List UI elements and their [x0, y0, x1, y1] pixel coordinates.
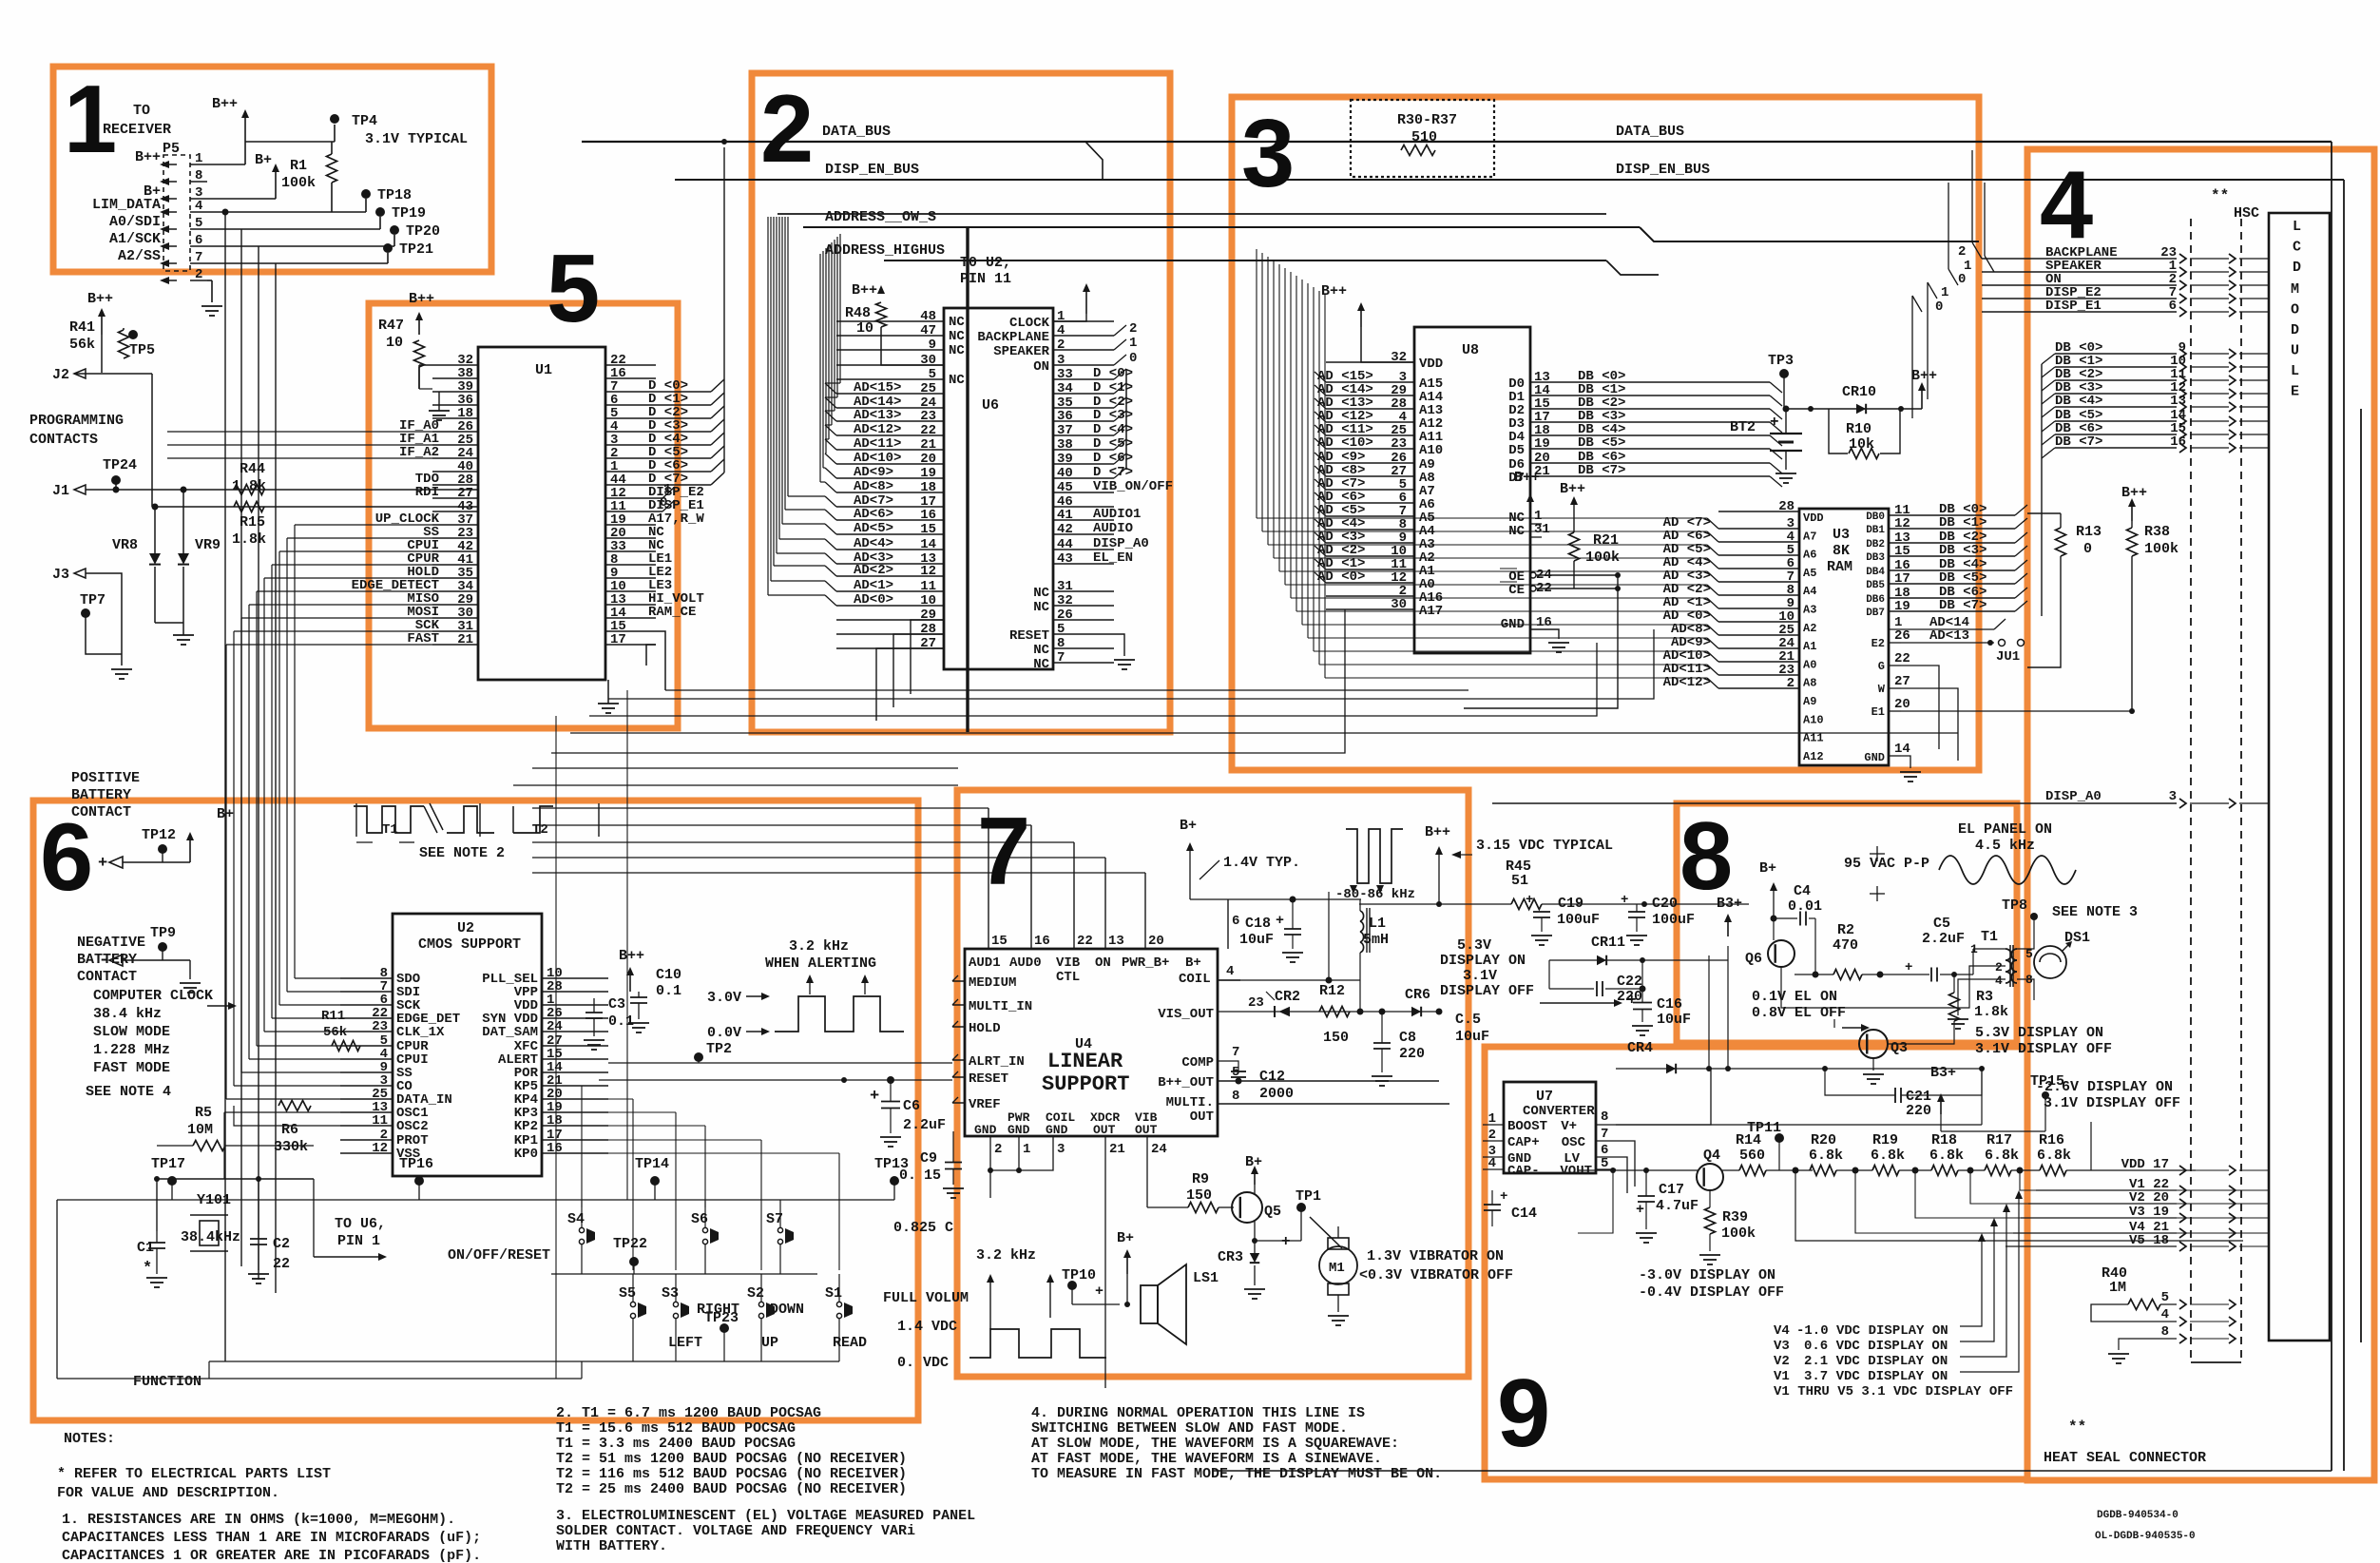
svg-text:8K: 8K — [1833, 543, 1850, 559]
svg-text:NC: NC — [949, 343, 965, 358]
svg-text:330k: 330k — [274, 1139, 308, 1155]
svg-text:16: 16 — [920, 508, 936, 523]
svg-text:1.4 VDC: 1.4 VDC — [897, 1319, 957, 1335]
svg-text:10: 10 — [920, 593, 936, 608]
svg-text:CAPACITANCES 1 OR GREATER ARE: CAPACITANCES 1 OR GREATER ARE IN PICOFAR… — [62, 1548, 481, 1563]
svg-text:3.7 VDC DISPLAY ON: 3.7 VDC DISPLAY ON — [1804, 1369, 1948, 1384]
svg-text:L1: L1 — [1369, 916, 1386, 932]
svg-text:15: 15 — [991, 934, 1008, 949]
ground — [1636, 1232, 1657, 1234]
svg-text:38: 38 — [1057, 437, 1073, 453]
svg-text:6.8k: 6.8k — [1809, 1148, 1843, 1164]
svg-text:TP8: TP8 — [2002, 897, 2027, 914]
svg-text:T1 = 15.6 ms 512 BAUD POCSAG: T1 = 15.6 ms 512 BAUD POCSAG — [556, 1420, 796, 1437]
svg-text:C6: C6 — [903, 1098, 920, 1114]
svg-text:CONVERTER: CONVERTER — [1523, 1104, 1595, 1119]
svg-text:RAM: RAM — [1827, 559, 1852, 575]
svg-text:C2: C2 — [273, 1236, 290, 1252]
transistor Q3 — [1859, 1030, 1888, 1058]
svg-text:18: 18 — [920, 480, 936, 495]
svg-text:2000: 2000 — [1259, 1086, 1294, 1102]
svg-text:FUNCTION: FUNCTION — [133, 1374, 202, 1390]
svg-text:56k: 56k — [323, 1025, 347, 1040]
ground — [429, 410, 450, 412]
svg-text:R39: R39 — [1722, 1209, 1748, 1225]
svg-text:23: 23 — [1248, 995, 1264, 1011]
svg-text:100uF: 100uF — [1557, 912, 1600, 928]
svg-text:8: 8 — [1232, 1089, 1239, 1104]
svg-text:5: 5 — [1057, 622, 1065, 637]
svg-text:16: 16 — [2170, 434, 2186, 450]
region box 1 — [53, 67, 491, 272]
svg-text:26: 26 — [1057, 608, 1073, 623]
svg-text:6: 6 — [40, 804, 93, 911]
svg-text:T2 = 116 ms 512 BAUD POCSAG (N: T2 = 116 ms 512 BAUD POCSAG (NO RECEIVER… — [556, 1466, 907, 1482]
svg-text:U7: U7 — [1536, 1089, 1553, 1105]
svg-text:AD<11>: AD<11> — [854, 436, 901, 452]
svg-text:G: G — [1878, 660, 1885, 673]
svg-text:10: 10 — [856, 320, 873, 337]
svg-text:B++: B++ — [852, 282, 877, 299]
svg-text:SUPPORT: SUPPORT — [1042, 1072, 1129, 1096]
svg-text:R18: R18 — [1931, 1132, 1957, 1148]
svg-text:15: 15 — [920, 522, 936, 537]
svg-text:5: 5 — [547, 236, 600, 342]
svg-text:R30-R37: R30-R37 — [1397, 112, 1457, 128]
svg-text:NC: NC — [1033, 586, 1049, 601]
svg-text:B++: B++ — [409, 291, 434, 307]
svg-text:AD<13>: AD<13> — [854, 408, 901, 423]
svg-text:+: + — [98, 855, 107, 873]
svg-text:VREF: VREF — [969, 1097, 1001, 1112]
svg-text:TO MEASURE IN FAST MODE, THE D: TO MEASURE IN FAST MODE, THE DISPLAY MUS… — [1031, 1466, 1442, 1482]
svg-text:2.2uF: 2.2uF — [1922, 931, 1965, 947]
waveform T1 T2 — [354, 806, 424, 833]
svg-text:DB6: DB6 — [1866, 594, 1885, 606]
svg-text:DB <7>: DB <7> — [2055, 434, 2102, 450]
svg-text:A6: A6 — [1803, 549, 1816, 562]
svg-text:6: 6 — [2169, 299, 2177, 314]
svg-text:16: 16 — [547, 1141, 563, 1156]
svg-text:R2: R2 — [1837, 922, 1854, 938]
svg-text:4: 4 — [2040, 152, 2093, 259]
svg-text:NC: NC — [1033, 657, 1049, 672]
svg-text:R21: R21 — [1593, 532, 1619, 549]
svg-text:CR11: CR11 — [1591, 935, 1625, 951]
svg-text:D5: D5 — [1508, 443, 1525, 458]
svg-text:18: 18 — [547, 1113, 563, 1129]
svg-text:T2 = 25 ms 2400 BAUD POCSAG (N: T2 = 25 ms 2400 BAUD POCSAG (NO RECEIVER… — [556, 1481, 907, 1497]
svg-text:TP11: TP11 — [1747, 1120, 1781, 1136]
svg-text:SWITCHING BETWEEN SLOW AND FAS: SWITCHING BETWEEN SLOW AND FAST MODE. — [1031, 1420, 1348, 1437]
svg-text:13: 13 — [2170, 394, 2186, 409]
svg-text:HEAT SEAL CONNECTOR: HEAT SEAL CONNECTOR — [2044, 1450, 2206, 1466]
svg-text:M1: M1 — [1329, 1261, 1345, 1276]
svg-text:CMOS SUPPORT: CMOS SUPPORT — [418, 936, 521, 953]
svg-text:31: 31 — [1534, 522, 1550, 537]
svg-text:B++: B++ — [212, 96, 238, 112]
microcomputer U1 — [478, 347, 605, 680]
svg-text:C: C — [2293, 240, 2301, 256]
ground — [2108, 1353, 2129, 1355]
svg-text:3: 3 — [1057, 353, 1065, 368]
svg-text:4: 4 — [1057, 323, 1065, 338]
svg-text:0: 0 — [1958, 272, 1966, 287]
svg-text:8: 8 — [1679, 803, 1733, 910]
svg-text:TP16: TP16 — [399, 1156, 433, 1172]
svg-text:0.01: 0.01 — [1788, 898, 1822, 915]
svg-text:<0.3V VIBRATOR OFF: <0.3V VIBRATOR OFF — [1359, 1267, 1513, 1283]
svg-text:B+: B+ — [1759, 860, 1776, 877]
svg-text:CLOCK: CLOCK — [1009, 316, 1050, 331]
svg-text:4.5 kHz: 4.5 kHz — [1975, 838, 2035, 854]
svg-text:AD<9>: AD<9> — [854, 465, 893, 480]
svg-text:20: 20 — [1894, 697, 1910, 712]
svg-text:* REFER TO ELECTRICAL PARTS: * REFER TO ELECTRICAL PARTS LIST — [57, 1466, 331, 1482]
transistor Q5 — [1232, 1192, 1262, 1223]
svg-text:V4: V4 — [1774, 1323, 1790, 1339]
svg-text:3.1V DISPLAY OFF: 3.1V DISPLAY OFF — [2044, 1095, 2180, 1111]
svg-text:0.0V: 0.0V — [707, 1025, 741, 1041]
svg-text:2: 2 — [1488, 1128, 1496, 1143]
svg-text:5: 5 — [2161, 1290, 2169, 1305]
svg-text:DOWN: DOWN — [770, 1302, 804, 1318]
region box 7 — [957, 790, 1468, 1377]
svg-text:-3.0V DISPLAY ON: -3.0V DISPLAY ON — [1639, 1267, 1775, 1283]
svg-text:LS1: LS1 — [1193, 1270, 1219, 1286]
svg-text:COMPUTER CLOCK: COMPUTER CLOCK — [93, 988, 213, 1004]
svg-text:GND: GND — [974, 1123, 997, 1137]
svg-text:AD<12>: AD<12> — [854, 422, 901, 437]
svg-text:34: 34 — [1057, 381, 1073, 396]
decoder U6 — [944, 308, 1053, 669]
svg-text:VIS_OUT: VIS_OUT — [1158, 1007, 1214, 1022]
test point TP10 — [1067, 1281, 1077, 1290]
svg-text:TP20: TP20 — [406, 223, 440, 240]
svg-text:C16: C16 — [1657, 996, 1682, 1013]
svg-text:SEE NOTE 4: SEE NOTE 4 — [86, 1084, 171, 1100]
svg-text:CLK_1X: CLK_1X — [396, 1025, 445, 1040]
svg-text:T1: T1 — [1981, 929, 1998, 945]
svg-text:TP10: TP10 — [1062, 1267, 1096, 1283]
svg-text:0.1: 0.1 — [608, 1013, 634, 1030]
svg-text:U6: U6 — [982, 397, 999, 414]
svg-text:E1: E1 — [1871, 705, 1885, 719]
svg-text:+: + — [1636, 1202, 1644, 1218]
svg-text:+: + — [1621, 893, 1628, 908]
svg-text:5: 5 — [929, 367, 936, 382]
svg-text:FULL VOLUM: FULL VOLUM — [883, 1290, 969, 1306]
test point TP1 — [1296, 1203, 1306, 1212]
svg-text:5: 5 — [1601, 1156, 1608, 1171]
svg-text:3.1V DISPLAY OFF: 3.1V DISPLAY OFF — [1975, 1041, 2112, 1057]
svg-text:RAM_CE: RAM_CE — [648, 605, 696, 620]
svg-text:4: 4 — [2161, 1307, 2169, 1322]
svg-text:100k: 100k — [2144, 541, 2178, 557]
svg-text:T1: T1 — [382, 822, 398, 838]
svg-text:R15: R15 — [240, 514, 265, 531]
svg-text:MEDIUM: MEDIUM — [969, 975, 1016, 991]
svg-text:ON/OFF/RESET: ON/OFF/RESET — [448, 1247, 550, 1264]
svg-text:AD<5>: AD<5> — [854, 521, 893, 536]
svg-text:7: 7 — [1601, 1127, 1608, 1142]
svg-text:0.1: 0.1 — [656, 983, 681, 999]
svg-text:0.825 C: 0.825 C — [893, 1220, 953, 1236]
svg-text:21: 21 — [920, 437, 936, 453]
svg-text:RESET: RESET — [1009, 628, 1049, 644]
svg-text:40: 40 — [1057, 466, 1073, 481]
svg-text:38.4kHz: 38.4kHz — [181, 1229, 240, 1245]
svg-text:AUD1: AUD1 — [969, 955, 1001, 971]
svg-text:12: 12 — [372, 1141, 388, 1156]
svg-text:ADDRESS__OW_S: ADDRESS__OW_S — [825, 209, 936, 225]
test point TP7 — [81, 608, 90, 618]
svg-text:6.8k: 6.8k — [1985, 1148, 2019, 1164]
svg-text:4: 4 — [1488, 1156, 1496, 1171]
svg-text:OSC: OSC — [1562, 1135, 1586, 1150]
svg-text:BOOST: BOOST — [1507, 1119, 1547, 1134]
svg-text:1.4V TYP.: 1.4V TYP. — [1223, 855, 1300, 871]
svg-text:26: 26 — [1894, 628, 1910, 644]
svg-text:KP2: KP2 — [514, 1119, 538, 1134]
svg-text:+: + — [1770, 414, 1779, 431]
svg-text:A5: A5 — [1803, 567, 1816, 580]
svg-text:6: 6 — [1232, 914, 1239, 929]
svg-text:5.3V: 5.3V — [1457, 937, 1491, 954]
svg-text:AUDIO1: AUDIO1 — [1093, 507, 1141, 522]
svg-text:**: ** — [2068, 1418, 2086, 1436]
svg-text:WHEN ALERTING: WHEN ALERTING — [765, 955, 876, 972]
svg-text:A2: A2 — [1803, 622, 1816, 635]
svg-text:-0.4V DISPLAY OFF: -0.4V DISPLAY OFF — [1639, 1284, 1784, 1301]
test point TP20 — [390, 225, 399, 235]
svg-text:4: 4 — [1995, 974, 2003, 988]
svg-text:AD<2>: AD<2> — [854, 563, 893, 578]
ground — [1699, 1254, 1720, 1256]
svg-text:A7: A7 — [1803, 530, 1816, 543]
svg-text:M: M — [2291, 281, 2299, 298]
ground — [598, 703, 619, 704]
region box 8 — [1677, 803, 2017, 1043]
svg-text:ADDRESS_HIGHUS: ADDRESS_HIGHUS — [825, 242, 945, 259]
svg-text:3: 3 — [1057, 1142, 1065, 1157]
svg-text:NC: NC — [1033, 643, 1049, 658]
svg-text:DB1: DB1 — [1866, 525, 1885, 536]
svg-text:3.1V TYPICAL: 3.1V TYPICAL — [365, 131, 468, 147]
ground — [1114, 659, 1135, 661]
svg-text:7: 7 — [977, 799, 1030, 905]
svg-text:220: 220 — [1399, 1046, 1425, 1062]
svg-text:AT FAST MODE, THE WAVEFORM IS: AT FAST MODE, THE WAVEFORM IS A SINEWAVE… — [1031, 1451, 1382, 1467]
svg-text:DISP_EN_BUS: DISP_EN_BUS — [1616, 162, 1710, 178]
svg-text:+: + — [1526, 893, 1533, 908]
svg-text:3. ELECTROLUMINESCENT (EL) VOL: 3. ELECTROLUMINESCENT (EL) VOLTAGE MEASU… — [556, 1508, 975, 1524]
svg-text:AD<4>: AD<4> — [854, 536, 893, 551]
svg-text:*: * — [143, 1260, 152, 1278]
svg-text:1: 1 — [1894, 615, 1902, 630]
svg-text:CR6: CR6 — [1405, 987, 1430, 1003]
RAM U3 — [1799, 509, 1889, 765]
vibrator motor M1 — [1319, 1246, 1357, 1284]
svg-text:A12: A12 — [1803, 750, 1824, 763]
svg-text:R19: R19 — [1872, 1132, 1898, 1148]
svg-text:DISP_A0: DISP_A0 — [2045, 789, 2102, 804]
svg-text:TP1: TP1 — [1296, 1188, 1321, 1205]
svg-text:1: 1 — [1023, 1142, 1030, 1157]
svg-text:VDD: VDD — [1419, 357, 1443, 372]
region box 5 — [369, 303, 678, 728]
svg-text:A0: A0 — [1803, 658, 1816, 671]
svg-text:R10: R10 — [1846, 421, 1871, 437]
svg-text:GND: GND — [1864, 751, 1885, 764]
svg-text:VIB_ON/OFF: VIB_ON/OFF — [1093, 479, 1173, 494]
svg-text:2. T1 = 6.7 ms 1200 BAUD POCSA: 2. T1 = 6.7 ms 1200 BAUD POCSAG — [556, 1405, 821, 1421]
svg-text:GND: GND — [1046, 1123, 1068, 1137]
svg-text:DISPLAY ON: DISPLAY ON — [1440, 953, 1526, 969]
svg-text:VIB: VIB — [1056, 955, 1081, 971]
region box 6 — [33, 801, 918, 1420]
svg-text:DB <4>: DB <4> — [2055, 394, 2102, 409]
svg-text:23: 23 — [920, 409, 936, 424]
svg-text:J2: J2 — [52, 367, 69, 383]
svg-text:1.8k: 1.8k — [1974, 1004, 2008, 1020]
svg-text:AD<14: AD<14 — [1929, 615, 1969, 630]
svg-text:1: 1 — [1941, 285, 1948, 300]
svg-text:TP15: TP15 — [2030, 1073, 2064, 1090]
svg-text:Q5: Q5 — [1264, 1204, 1281, 1220]
svg-text:TP2: TP2 — [706, 1041, 732, 1057]
svg-text:SPEAKER: SPEAKER — [993, 344, 1049, 359]
test point TP9 — [158, 942, 167, 952]
linear support IC U4 — [965, 949, 1218, 1136]
svg-text:LEFT: LEFT — [668, 1335, 702, 1351]
ground — [180, 982, 201, 984]
svg-text:C4: C4 — [1794, 883, 1811, 899]
svg-text:19: 19 — [1534, 436, 1550, 452]
svg-text:3: 3 — [2169, 789, 2177, 804]
svg-text:TP21: TP21 — [399, 241, 433, 258]
svg-text:DISP_E1: DISP_E1 — [2045, 299, 2102, 314]
svg-text:25: 25 — [920, 381, 936, 396]
svg-text:1: 1 — [1488, 1111, 1496, 1127]
svg-text:A10: A10 — [1419, 443, 1443, 458]
svg-text:EL PANEL ON: EL PANEL ON — [1958, 821, 2052, 838]
svg-text:1: 1 — [1129, 336, 1137, 351]
svg-text:R41: R41 — [69, 319, 95, 336]
test point TP3 — [1779, 369, 1789, 378]
svg-text:2: 2 — [1958, 244, 1966, 260]
svg-text:15: 15 — [1894, 544, 1910, 559]
svg-text:LIM_DATA: LIM_DATA — [92, 197, 161, 213]
svg-text:0.8V EL OFF: 0.8V EL OFF — [1752, 1005, 1846, 1021]
svg-text:3.0V: 3.0V — [707, 990, 741, 1006]
svg-text:NEGATIVE: NEGATIVE — [77, 935, 145, 951]
svg-text:21: 21 — [1534, 464, 1550, 479]
svg-text:+: + — [1500, 1189, 1507, 1205]
svg-text:11: 11 — [920, 579, 936, 594]
svg-text:SEE NOTE 3: SEE NOTE 3 — [2052, 904, 2138, 920]
svg-text:ON: ON — [1095, 955, 1111, 971]
svg-text:CR4: CR4 — [1627, 1040, 1653, 1056]
svg-text:0: 0 — [1129, 351, 1137, 366]
svg-text:1. RESISTANCES ARE IN OHMS (k=: 1. RESISTANCES ARE IN OHMS (k=1000, M=ME… — [62, 1512, 455, 1528]
svg-text:POSITIVE: POSITIVE — [71, 770, 140, 786]
svg-text:470: 470 — [1833, 937, 1858, 954]
svg-text:TP5: TP5 — [129, 342, 155, 358]
svg-text:23: 23 — [372, 1019, 388, 1034]
svg-text:4.7uF: 4.7uF — [1656, 1198, 1699, 1214]
svg-text:NC: NC — [1033, 600, 1049, 615]
test point TP18 — [361, 189, 371, 199]
svg-text:DB <7>: DB <7> — [1939, 598, 1987, 613]
svg-text:43: 43 — [1057, 551, 1073, 567]
svg-text:READ: READ — [833, 1335, 867, 1351]
svg-text:21: 21 — [457, 632, 473, 647]
svg-text:D7: D7 — [1508, 471, 1525, 486]
svg-text:+: + — [870, 1088, 879, 1106]
svg-text:VR8: VR8 — [112, 537, 138, 553]
svg-text:11: 11 — [372, 1113, 388, 1129]
svg-text:U3: U3 — [1833, 527, 1850, 543]
test point TP19 — [375, 207, 385, 217]
svg-text:OUT: OUT — [1093, 1123, 1116, 1137]
svg-text:V3: V3 — [1774, 1339, 1790, 1354]
svg-text:CR3: CR3 — [1218, 1249, 1243, 1265]
ground — [1328, 1315, 1349, 1317]
svg-text:T1 = 3.3 ms 2400 BAUD POCSAG: T1 = 3.3 ms 2400 BAUD POCSAG — [556, 1436, 796, 1452]
svg-text:DB <3>: DB <3> — [1939, 543, 1987, 558]
svg-text:PWR_B+: PWR_B+ — [1122, 955, 1169, 971]
svg-text:B++: B++ — [619, 948, 644, 964]
svg-text:VDD: VDD — [1803, 511, 1824, 525]
svg-text:0: 0 — [1935, 299, 1943, 315]
svg-text:TO: TO — [133, 103, 150, 119]
svg-text:DAT_SAM: DAT_SAM — [482, 1025, 538, 1040]
svg-text:SEE NOTE 2: SEE NOTE 2 — [419, 845, 505, 861]
svg-text:RDI: RDI — [415, 485, 439, 500]
region box 4 — [2027, 149, 2374, 1480]
svg-text:20: 20 — [1148, 934, 1164, 949]
svg-text:12: 12 — [1894, 516, 1910, 531]
svg-text:R48: R48 — [845, 305, 871, 321]
svg-text:27: 27 — [1894, 674, 1910, 689]
svg-text:AUD0: AUD0 — [1009, 955, 1042, 971]
svg-text:14: 14 — [1894, 742, 1910, 757]
svg-text:TP4: TP4 — [352, 113, 377, 129]
svg-text:7: 7 — [1057, 650, 1065, 666]
svg-text:14: 14 — [920, 537, 936, 552]
svg-text:150: 150 — [1186, 1187, 1212, 1204]
svg-text:C19: C19 — [1558, 896, 1583, 912]
svg-text:TP22: TP22 — [613, 1236, 647, 1252]
svg-text:R38: R38 — [2144, 524, 2170, 540]
svg-text:OUT: OUT — [1190, 1110, 1214, 1125]
svg-text:EL_EN: EL_EN — [1093, 550, 1133, 566]
svg-text:16: 16 — [1536, 615, 1552, 630]
svg-text:COMP: COMP — [1181, 1055, 1214, 1071]
svg-text:UP: UP — [761, 1335, 778, 1351]
svg-text:IF_A2: IF_A2 — [399, 445, 439, 460]
svg-text:2: 2 — [994, 1142, 1002, 1157]
svg-text:BATTERY: BATTERY — [77, 952, 137, 968]
svg-text:2: 2 — [1787, 676, 1795, 691]
svg-text:E: E — [2291, 384, 2299, 400]
ground — [248, 1273, 269, 1275]
svg-text:100k: 100k — [281, 175, 316, 191]
svg-text:510: 510 — [1411, 129, 1437, 145]
svg-text:C18: C18 — [1245, 916, 1271, 932]
svg-text:6.8k: 6.8k — [1929, 1148, 1964, 1164]
